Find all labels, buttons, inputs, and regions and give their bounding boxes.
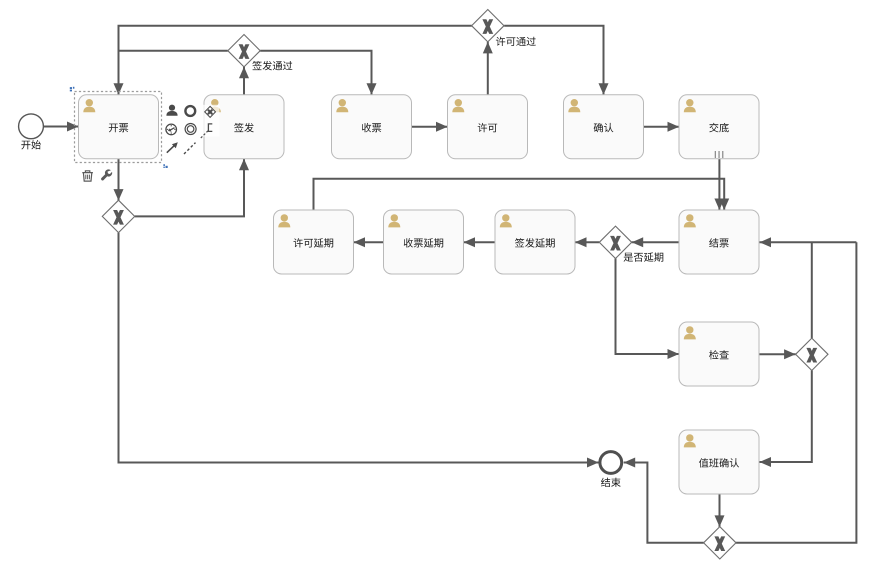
- task queren: [564, 95, 644, 159]
- pad icon end event: [185, 106, 195, 116]
- gateway qianfa-tongguo G1: [228, 35, 260, 67]
- wire start to kaipiao: [44, 122, 79, 132]
- wire G6 to end event: [624, 458, 704, 543]
- label xuke tongguo: [496, 37, 536, 46]
- wire xuke to G2: [483, 42, 493, 95]
- wire G5 up to jiepiao line: [811, 242, 813, 338]
- wire G5 to zhibanqueren: [760, 371, 812, 468]
- wire jiepiao to G4: [632, 237, 679, 247]
- wire G2 to kaipiao: [119, 26, 472, 51]
- wire G2 to queren: [504, 26, 608, 95]
- wire qianfa to G1: [239, 67, 249, 95]
- wire G1 to shoupiao: [260, 51, 376, 95]
- gateway G3 below kaipiao: [102, 200, 134, 232]
- wire zhibanqueren to G6: [715, 494, 725, 527]
- gateway shifou-yanqi G4: [599, 226, 631, 258]
- gateway G5 right of jiancha: [796, 338, 828, 370]
- task qianfayanqi: [495, 210, 575, 274]
- pad icon connect arrow: [167, 142, 178, 152]
- wire G6 right rail up: [736, 242, 857, 543]
- wire G4 to qianfayanqi: [575, 237, 599, 247]
- start event 开始: [19, 114, 44, 139]
- task qianfa: [204, 95, 284, 159]
- label jieshu: [601, 478, 621, 487]
- pad icon backdrop over qianfa box: [203, 105, 220, 137]
- wire G4 to jiancha: [616, 259, 680, 360]
- task jiepiao: [679, 210, 759, 274]
- selection dashed frame: [75, 92, 162, 163]
- pad icon text annotation: [201, 124, 213, 138]
- label kaishi: [21, 140, 41, 150]
- wire right rail to jiepiao: [760, 237, 857, 247]
- pad icon gateway: [205, 106, 216, 117]
- task shoupiaoyanqi: [384, 210, 464, 274]
- task kaipiao: [79, 95, 159, 159]
- wire jiaodi to jiepiao: [714, 159, 724, 210]
- wire queren to jiaodi: [644, 122, 680, 132]
- task shoupiao: [332, 95, 412, 159]
- task jiaodi: [679, 95, 759, 159]
- label qianfa tongguo: [252, 61, 292, 70]
- wire G3 to qianfa: [135, 159, 249, 217]
- pad icon timer event: [166, 124, 177, 135]
- selection handle SE: [163, 164, 167, 168]
- wire shoupiao to xuke: [412, 122, 448, 132]
- task zhibanqueren: [679, 430, 759, 494]
- trash icon: [82, 171, 93, 181]
- wire qianfayanqi to shoupiaoyanqi: [464, 237, 496, 247]
- wire G3 to end event: [119, 233, 599, 468]
- task xukeyanqi: [274, 210, 354, 274]
- end event 结束: [600, 452, 622, 474]
- wire G1 to kaipiao: [114, 51, 228, 95]
- task jiancha: [679, 322, 759, 386]
- pad icon intermediate event: [185, 124, 196, 135]
- pad icon user task: [166, 105, 177, 116]
- wire xukeyanqi to jiepiao: [314, 179, 730, 210]
- gateway xuke-tongguo G2: [472, 10, 504, 42]
- wire shoupiaoyanqi to xukeyanqi: [354, 237, 384, 247]
- wire kaipiao to gateway G3: [114, 159, 124, 201]
- selection handle NW: [70, 87, 75, 92]
- wire jiancha to G5: [759, 349, 796, 359]
- label shifou yanqi: [624, 252, 664, 261]
- pad icon association dashed: [184, 143, 196, 154]
- task xuke: [448, 95, 528, 159]
- gateway G6 bottom: [704, 527, 736, 559]
- wrench icon: [101, 169, 112, 180]
